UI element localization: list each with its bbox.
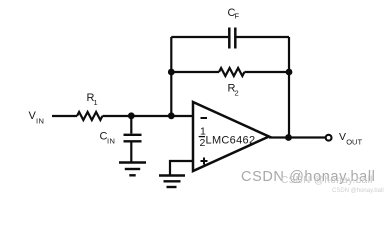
- wire plus input to ground: [170, 161, 193, 175]
- capacitor CF label: [228, 7, 240, 21]
- node junction left R2: [168, 69, 175, 76]
- wire CIN to ground: [130, 141, 132, 162]
- watermark small overlay: [281, 175, 373, 186]
- wire left feedback vertical: [170, 37, 172, 116]
- wire op-amp output: [269, 136, 326, 138]
- capacitor CF: [229, 28, 235, 49]
- wire CF top left segment: [171, 36, 228, 38]
- node junction at feedback tap: [168, 112, 175, 119]
- op-amp U1: [193, 102, 269, 171]
- ground under CIN: [119, 163, 146, 176]
- svg-text:2: 2: [235, 89, 239, 98]
- svg-text:OUT: OUT: [346, 138, 362, 147]
- node junction right R2: [286, 69, 293, 76]
- svg-text:1: 1: [94, 98, 98, 107]
- node VOUT terminal: [326, 135, 332, 141]
- wire CIN stub down: [130, 116, 132, 134]
- wire CF top right segment: [237, 36, 290, 38]
- svg-text:V: V: [339, 131, 346, 143]
- resistor R2: [219, 68, 244, 76]
- node VOUT label: [339, 131, 362, 147]
- resistor R1 label: [87, 92, 98, 107]
- capacitor CIN label: [100, 131, 116, 146]
- watermark tiny: [332, 188, 384, 194]
- resistor R2 label: [228, 83, 239, 98]
- op-amp value label LMC6462: [206, 134, 256, 146]
- wire R1 to inverting input: [102, 115, 193, 117]
- svg-text:LMC6462: LMC6462: [206, 134, 256, 146]
- capacitor CIN: [124, 135, 142, 142]
- wire R2 right lead: [244, 71, 289, 73]
- wire right feedback vertical: [288, 37, 290, 138]
- svg-text:IN: IN: [36, 117, 44, 126]
- watermark main CSDN: [241, 169, 375, 185]
- node VIN label: [29, 110, 45, 126]
- op-amp minus pin mark: [201, 117, 208, 119]
- svg-text:IN: IN: [107, 137, 115, 146]
- node junction output: [285, 134, 292, 141]
- svg-text:F: F: [235, 12, 240, 21]
- resistor R1: [77, 112, 102, 120]
- ground at op-amp plus input: [159, 176, 185, 188]
- op-amp plus pin mark: [201, 158, 208, 165]
- wire R2 left lead: [171, 71, 219, 73]
- op-amp 1/2 fraction: [199, 126, 206, 150]
- node junction at CIN: [128, 112, 135, 119]
- wire VIN to R1: [52, 115, 77, 117]
